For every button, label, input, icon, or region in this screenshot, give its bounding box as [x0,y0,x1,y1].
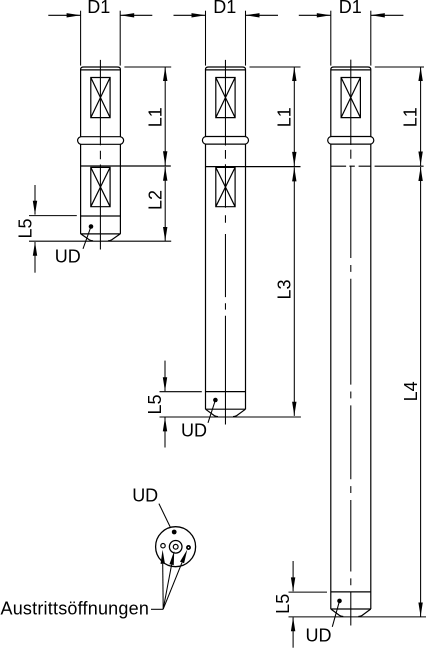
fig3 L4 bottom arrowhead [418,603,422,617]
fig1 L1 bottom arrowhead [163,151,167,165]
detail leader line right [163,563,182,610]
fig1 tip right chamfer [108,234,121,241]
fig3 L1 bottom arrowhead [418,152,422,166]
fig3 L5 dimension line upper [292,561,294,591]
fig2 tip right chamfer [233,409,246,416]
fig2 L3 top arrowhead [292,167,296,181]
fig3 L5 upper arrowhead [291,577,295,591]
fig3 L4 dimension line [420,167,422,617]
svg-text:L5: L5 [145,394,165,414]
svg-text:UD: UD [306,626,332,646]
svg-text:L2: L2 [146,190,166,210]
fig2 left side upper [205,70,207,137]
fig1 D1 left arrowhead [67,13,81,17]
fig2 magnet box 2 [216,167,235,206]
detail center outer circle [169,541,182,554]
fig2 L1 dimension line [293,67,295,167]
fig2 cap bottom line [206,69,246,71]
fig3 left side lower [330,144,332,609]
detail leader arrow right [180,550,187,564]
fig2 D1 left extension line [205,11,207,66]
fig2 D1 left arrowhead [192,13,206,17]
svg-text:L1: L1 [275,107,295,127]
fig2 tip top line [206,391,246,393]
fig1 magnet box 1 [91,78,110,118]
fig3 left side upper [330,70,332,137]
fig3 cap bottom line [331,69,371,71]
fig2 magnet box 1 [216,78,235,118]
fig1 tip left chamfer [81,234,94,241]
fig3 centerline [350,60,352,626]
fig2 outlet hole dot [213,398,218,403]
fig3 ring collar [328,137,374,145]
fig1 L5 dimension line upper [34,185,36,215]
fig1 L5 top extension line [29,215,77,217]
fig3 L1 top extension line [375,66,424,68]
fig1 L1 dimension line [164,67,166,166]
fig2 L5 upper arrowhead [163,377,167,391]
fig3 L4 top arrowhead [418,167,422,181]
fig1 D1 right arrowhead [120,13,134,17]
fig2 L5 top extension line [160,391,202,393]
fig1 magnet box 2 [91,167,110,206]
svg-text:L1: L1 [146,107,166,127]
fig3 right side lower [370,144,372,609]
fig3 section boundary dashed line [331,165,371,167]
fig2 ring collar [202,137,248,145]
detail leader arrow left [161,550,165,564]
fig3 D1 dimension line right tail [371,14,404,16]
fig2 L3 bottom arrowhead [292,402,296,416]
fig1 L5 dimension line lower [34,242,36,273]
svg-text:L5: L5 [16,218,36,238]
fig3 L5 dimension line lower [292,617,294,647]
fig1 L2 bottom arrowhead [163,227,167,241]
fig3 tip top line [331,591,371,593]
fig3 UD leader line [332,601,339,627]
fig2 L5 lower arrowhead [163,417,167,431]
fig1 left side upper [80,70,82,137]
fig3 L5 top extension line [289,591,328,593]
fig3 D1 left extension line [330,11,332,66]
fig2 right side upper [245,70,247,137]
fig2 D1 right extension line [245,11,247,66]
detail center inner circle [173,544,178,549]
fig1 left side lower [80,144,82,234]
fig3 D1 right extension line [370,11,372,66]
fig1 L2 top arrowhead [163,167,167,181]
fig1 L1 top arrowhead [163,67,167,81]
fig2 centerline [224,60,226,425]
detail leader line center [163,565,171,609]
fig3 tip shoulder line [331,608,371,610]
fig2 tip shoulder line [206,408,246,410]
fig1 centerline [99,60,101,250]
detail leader arrow center [169,551,174,565]
fig2 left side lower [205,144,207,409]
detail top outlet dot [172,530,177,535]
svg-text:D1: D1 [213,0,236,17]
fig3 tip bottom extension line [289,616,426,618]
fig1 right side upper [119,70,121,137]
fig2 D1 right arrowhead [246,13,260,17]
detail right outlet dot [187,546,190,549]
fig1 L5 upper arrowhead [33,201,37,215]
fig3 L1 dimension line [420,67,422,166]
fig2 tip left chamfer [206,409,219,416]
svg-text:L4: L4 [401,381,421,401]
svg-text:UD: UD [181,421,207,441]
fig3 outlet hole dot [337,599,342,604]
detail leader line left [162,564,165,609]
fig3 magnet box 1 [341,78,360,118]
fig2 UD leader line [208,400,215,423]
fig1 tip bottom extension line [29,240,171,242]
fig3 tip left chamfer [331,609,344,617]
fig1 tip top line [81,215,121,217]
fig2 top cap [206,67,246,70]
fig1 section boundary line with extension [81,165,171,167]
fig1 cap bottom line [81,69,121,71]
detail face circle [156,527,196,567]
svg-text:Austrittsöffnungen: Austrittsöffnungen [1,599,150,619]
fig2 L1 top arrowhead [292,67,296,81]
fig1 ring collar [78,137,124,145]
fig1 UD leader line [83,227,91,249]
fig2 section boundary line with extension [206,166,301,168]
fig3 right side upper [370,70,372,137]
fig2 L5 dimension line lower [164,417,166,447]
fig3 tip right chamfer [358,609,371,617]
fig1 D1 dimension line left tail [48,14,80,16]
fig1 right side lower [119,144,121,234]
fig2 right side lower [245,144,247,409]
fig2 D1 dimension line left tail [174,14,206,16]
svg-text:D1: D1 [87,0,110,17]
detail left outlet circle [161,544,165,548]
fig2 L1 top extension line [250,66,301,68]
svg-text:UD: UD [55,247,81,267]
fig1 D1 right extension line [119,11,121,66]
fig3 L5 lower arrowhead [291,617,295,631]
fig3 D1 right arrowhead [371,13,385,17]
fig1 tip shoulder line [81,233,121,235]
fig1 D1 dimension line right tail [120,14,152,16]
fig1 top cap [81,67,121,70]
svg-text:L5: L5 [273,594,293,614]
svg-text:L1: L1 [401,107,421,127]
fig3 D1 dimension line left tail [299,14,331,16]
fig2 L1 bottom arrowhead [292,152,296,166]
fig3 top cap [331,67,371,70]
fig2 L3 dimension line [293,167,295,416]
detail label connector [151,608,163,610]
svg-text:UD: UD [132,485,158,505]
fig1 D1 left extension line [80,11,82,66]
fig3 D1 left arrowhead [317,13,331,17]
fig1 L1 top extension line [124,66,171,68]
fig1 L5 lower arrowhead [33,242,37,256]
fig1 L2 dimension line [164,167,166,241]
svg-text:L3: L3 [275,279,295,299]
fig2 tip bottom extension line [160,416,301,418]
fig3 section boundary extension line [375,165,424,167]
svg-text:D1: D1 [339,0,362,17]
fig1 outlet hole dot [89,224,94,229]
fig2 L5 dimension line upper [164,361,166,392]
fig3 L1 top arrowhead [418,67,422,81]
fig2 D1 dimension line right tail [246,14,279,16]
detail UD leader line [159,504,171,528]
